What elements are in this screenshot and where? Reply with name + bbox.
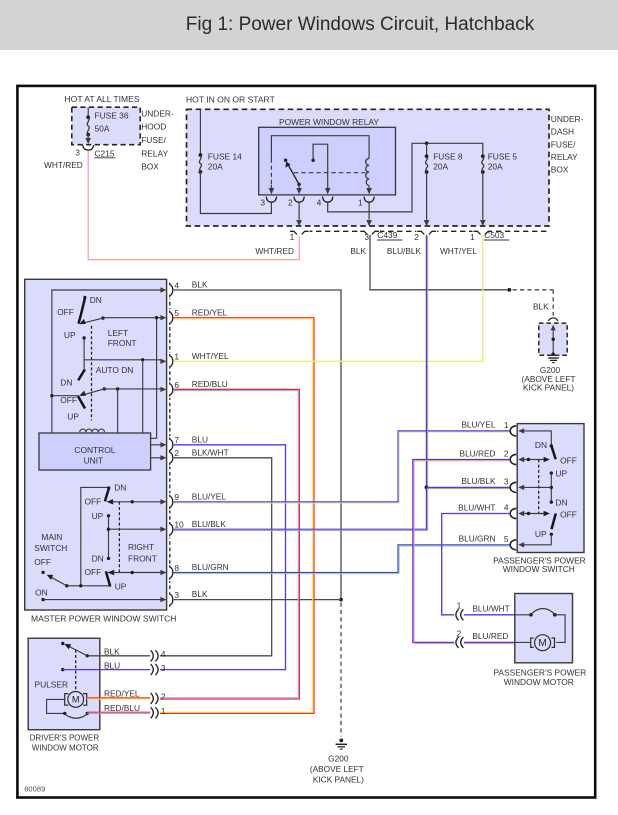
svg-text:8: 8 [174, 563, 179, 573]
svg-text:BLU/YEL: BLU/YEL [461, 420, 496, 430]
under-dash fuse/relay box (dashed) [187, 109, 550, 226]
svg-text:BLK/WHT: BLK/WHT [192, 447, 229, 457]
wire BLU/BLK from C439 pin 2 [425, 235, 427, 487]
junction rail at down switch [50, 394, 53, 397]
right front upper blade [107, 486, 110, 489]
passenger motor thermal breaker arc [529, 613, 533, 617]
passenger pin 4 lead with wiper arrow [524, 513, 546, 515]
svg-text:KICK PANEL): KICK PANEL) [523, 382, 574, 392]
driver motor M2 [68, 692, 84, 708]
svg-text:POWER WINDOW RELAY: POWER WINDOW RELAY [279, 117, 379, 127]
feed rail down to control unit [151, 318, 157, 439]
fuse F8 20A [425, 154, 429, 158]
passenger DN contact upper [550, 444, 553, 447]
connector C215 [83, 145, 94, 150]
svg-text:M: M [538, 638, 546, 649]
contact dot pin 8 row [131, 571, 134, 574]
svg-text:4: 4 [161, 649, 166, 659]
svg-text:1: 1 [358, 198, 363, 208]
svg-text:OFF: OFF [85, 497, 102, 507]
svg-text:MAIN: MAIN [41, 532, 62, 542]
svg-text:2: 2 [414, 232, 419, 242]
svg-text:BLU/GRN: BLU/GRN [192, 562, 229, 572]
passenger power window switch box [517, 424, 584, 553]
wire BLU master pin 7 to driver motor [160, 445, 286, 670]
passenger pin edge arrows [518, 428, 524, 433]
svg-text:DN: DN [60, 378, 72, 388]
ground distribution box G200 right (dashed) [539, 323, 567, 355]
fuse F14 20A [199, 153, 203, 157]
relay coil feed loop wire [271, 136, 369, 159]
down switch blade [78, 396, 85, 408]
auto dn contact and lead [82, 336, 85, 339]
passenger pin 3 lead [524, 486, 551, 488]
svg-text:OFF: OFF [560, 455, 577, 465]
relay pin 3 link (dashed) [270, 159, 272, 185]
svg-text:20A: 20A [208, 162, 223, 172]
svg-text:BLK: BLK [192, 280, 208, 290]
svg-text:MASTER POWER WINDOW SWITCH: MASTER POWER WINDOW SWITCH [31, 614, 176, 624]
svg-text:FUSE 14: FUSE 14 [208, 152, 242, 162]
svg-text:BLK: BLK [533, 301, 549, 311]
svg-text:BOX: BOX [551, 165, 569, 175]
svg-text:WHT/YEL: WHT/YEL [440, 246, 477, 256]
passenger UP contact [550, 471, 553, 474]
driver motor connector arcs and pins [151, 650, 154, 661]
svg-text:BLU: BLU [104, 660, 120, 670]
right front mech link dashed [118, 502, 120, 573]
svg-text:OFF: OFF [34, 557, 51, 567]
G200 right internal lead with up arrow [552, 328, 554, 354]
junction pin6 row to control unit [116, 387, 119, 390]
svg-text:(ABOVE LEFT: (ABOVE LEFT [310, 764, 364, 774]
svg-text:C215: C215 [95, 148, 115, 158]
svg-text:BLK: BLK [350, 246, 366, 256]
svg-text:FUSE/: FUSE/ [551, 139, 576, 149]
connector arcs motor pin 2 [461, 637, 464, 648]
under-hood fuse/relay box (dashed) [72, 107, 140, 145]
svg-text:RED/BLU: RED/BLU [192, 379, 228, 389]
wire BLK master pin 3 [174, 599, 341, 601]
master pin edge arrows [160, 287, 166, 292]
junction pin 10 row [107, 528, 110, 531]
svg-text:BLU/GRN: BLU/GRN [459, 534, 496, 544]
wire RED/BLU driver motor internal [87, 711, 150, 713]
junction fuse 8 tap [425, 142, 429, 146]
svg-text:9: 9 [174, 492, 179, 502]
svg-text:Fig 1: Power Windows Circuit,: Fig 1: Power Windows Circuit, Hatchback [186, 14, 535, 35]
wire RED/YEL master pin 5 to driver motor [160, 318, 314, 714]
driver motor commutator arc [63, 712, 66, 715]
svg-text:50A: 50A [95, 124, 110, 134]
passenger pin 1 lead to DN contact [524, 431, 551, 445]
svg-text:4: 4 [504, 503, 509, 513]
main switch OFF contact [41, 571, 44, 574]
svg-text:ON: ON [35, 587, 48, 597]
fuse F5 20A [481, 154, 485, 158]
svg-text:UNDER-: UNDER- [551, 114, 584, 124]
svg-text:FRONT: FRONT [108, 338, 137, 348]
svg-text:UP: UP [64, 330, 76, 340]
right front centre lead [108, 516, 110, 559]
relay coil [366, 159, 369, 186]
junction pin1 row [141, 358, 144, 361]
relay coil to pin 1 arrow [368, 186, 370, 190]
down switch wiper to pin 6 [103, 387, 106, 390]
wire master pin 10 internal [109, 528, 161, 530]
bottom rail to blades [67, 585, 110, 587]
svg-text:3: 3 [161, 663, 166, 673]
down switch pivot lead [52, 395, 79, 397]
svg-text:SWITCH: SWITCH [34, 543, 67, 553]
junction passenger pin 3 row [550, 486, 553, 489]
right front UP contact [107, 514, 110, 517]
svg-text:OFF: OFF [85, 567, 102, 577]
wire fuse 8 to C439 pin 2 [426, 172, 428, 220]
svg-text:HOT AT ALL TIMES: HOT AT ALL TIMES [65, 94, 140, 104]
wire fuse F14 to relay pin 3 [200, 172, 271, 214]
svg-text:HOT IN ON OR START: HOT IN ON OR START [186, 95, 276, 105]
svg-text:1: 1 [470, 232, 475, 242]
svg-text:DN: DN [535, 440, 547, 450]
svg-text:WINDOW MOTOR: WINDOW MOTOR [32, 744, 99, 753]
svg-text:WHT/RED: WHT/RED [44, 160, 83, 170]
svg-text:DN: DN [90, 295, 102, 305]
passenger lower blade [552, 513, 556, 529]
wire BLK master pin 4 to ground [174, 290, 341, 600]
svg-text:G200: G200 [328, 754, 349, 764]
svg-text:CONTROL: CONTROL [74, 445, 115, 455]
svg-text:3: 3 [504, 476, 509, 486]
svg-text:1: 1 [290, 232, 295, 242]
wire BLK dashed to G200 right [513, 289, 554, 291]
pulser contact [61, 642, 64, 645]
passenger DN contact lower [550, 500, 553, 503]
passenger motor breaker lead [515, 614, 531, 616]
svg-text:FRONT: FRONT [128, 553, 157, 563]
svg-text:1: 1 [174, 352, 179, 362]
svg-text:2: 2 [504, 449, 509, 459]
wire master pin 9 internal with wiper arrow [106, 499, 113, 504]
pulser blade with arrow [67, 645, 88, 656]
svg-text:7: 7 [174, 435, 179, 445]
svg-text:BOX: BOX [141, 162, 159, 172]
junction BLU/BLK [425, 486, 429, 490]
right front feed rail [81, 487, 109, 585]
svg-text:WINDOW SWITCH: WINDOW SWITCH [503, 564, 575, 574]
wire BLU driver motor internal [63, 669, 150, 671]
svg-text:BLU/BLK: BLU/BLK [387, 246, 422, 256]
svg-text:BLU/WHT: BLU/WHT [458, 502, 495, 512]
svg-text:C439: C439 [377, 230, 397, 240]
wire BLU/BLK master pin 10 to junction [174, 487, 427, 529]
svg-text:UNIT: UNIT [84, 456, 104, 466]
passenger lower blade contact [550, 533, 553, 536]
wire relay pin 4 to fuses 8 and 5 [328, 143, 483, 212]
control unit box [39, 433, 151, 470]
connector bracket above G200 box [548, 318, 558, 321]
svg-text:PASSENGER'S POWER: PASSENGER'S POWER [493, 667, 586, 677]
wire master pin 4 internal [52, 290, 161, 433]
left front switch blade [83, 296, 86, 299]
svg-text:RIGHT: RIGHT [128, 542, 154, 552]
relay pin cups [266, 197, 276, 203]
svg-text:FUSE/: FUSE/ [141, 135, 166, 145]
svg-text:UNDER-: UNDER- [141, 108, 174, 118]
fuse F36 lead [87, 107, 89, 117]
ground symbol G200 right [548, 357, 559, 359]
svg-text:KICK PANEL): KICK PANEL) [313, 774, 364, 784]
svg-text:2: 2 [161, 692, 166, 702]
wire BLU/RED connector to motor box [464, 641, 515, 643]
svg-text:3: 3 [364, 232, 369, 242]
auto-down link dashed [91, 326, 93, 421]
svg-text:OFF: OFF [60, 395, 77, 405]
passenger centre lead [550, 473, 552, 502]
svg-text:1: 1 [161, 706, 166, 716]
svg-text:4: 4 [174, 280, 179, 290]
svg-text:5: 5 [174, 308, 179, 318]
wire BLK/WHT master pin 2 to driver motor [160, 458, 272, 656]
passenger power window motor box [515, 594, 573, 663]
svg-text:2: 2 [174, 448, 179, 458]
passenger pin 2 lead with wiper arrow [524, 459, 546, 461]
svg-text:AUTO DN: AUTO DN [96, 365, 134, 375]
auto dn blade [78, 369, 85, 380]
control unit solenoid coil [80, 429, 105, 432]
svg-text:5: 5 [504, 534, 509, 544]
driver motor lower loop [47, 699, 65, 713]
wire BLU/BLK junction to passenger pin 3 [426, 486, 509, 488]
svg-text:3: 3 [75, 147, 80, 157]
right front lower blade [106, 571, 110, 584]
master connector pin bulges [170, 283, 173, 297]
svg-text:UP: UP [555, 468, 567, 478]
svg-text:LEFT: LEFT [108, 328, 128, 338]
svg-text:BLU/BLK: BLU/BLK [192, 519, 227, 529]
pulser lower contact on BLK row [86, 654, 89, 657]
svg-text:2: 2 [457, 628, 462, 638]
passenger motor breaker to motor lead [555, 615, 565, 643]
master connector dashed line [169, 283, 171, 607]
vertical 142.7 to control unit [142, 360, 144, 433]
wire BLU/RED passenger pin 2 to motor [413, 460, 510, 643]
wire master pin 1 internal [84, 359, 161, 361]
passenger motor pin 2 lead [515, 641, 531, 643]
wire master pin 8 internal with wiper arrow [107, 570, 114, 575]
svg-text:BLK: BLK [104, 647, 120, 657]
svg-text:RELAY: RELAY [551, 152, 578, 162]
svg-text:BLU/RED: BLU/RED [460, 448, 496, 458]
svg-text:PULSER: PULSER [35, 679, 69, 689]
svg-text:20A: 20A [433, 162, 448, 172]
passenger upper blade [552, 446, 556, 459]
svg-text:BLU: BLU [192, 434, 208, 444]
relay mechanical link (dashed) [294, 172, 366, 174]
wire fuse 5 to C503 pin 1 [482, 172, 484, 220]
title bar [0, 0, 618, 50]
right front DN contact [107, 557, 110, 560]
main switch ON contact and pin 3 wire [41, 598, 44, 601]
svg-text:RELAY: RELAY [141, 148, 168, 158]
svg-text:UP: UP [92, 511, 104, 521]
svg-text:WINDOW MOTOR: WINDOW MOTOR [504, 677, 574, 687]
wire WHT/RED from C215 to relay pin 2 [88, 151, 299, 260]
connector C503 notch pin 1 [474, 231, 493, 234]
passenger pin 5 lead [524, 534, 551, 545]
svg-text:2: 2 [288, 198, 293, 208]
svg-text:3: 3 [174, 590, 179, 600]
svg-text:OFF: OFF [57, 307, 74, 317]
wire BLU/WHT connector to motor box [464, 614, 515, 616]
wire RED/BLU master pin 6 to driver motor [160, 389, 300, 699]
svg-text:WHT/RED: WHT/RED [255, 246, 294, 256]
svg-text:80089: 80089 [24, 784, 45, 793]
passenger motor M1 [535, 635, 551, 651]
relay pin 3 internal arrow [270, 185, 272, 190]
fuse F14 lead [199, 109, 201, 155]
relay blade to pin 2 arrow [297, 183, 300, 186]
svg-text:DN: DN [92, 553, 104, 563]
junction BLK to ground lead [508, 288, 512, 292]
wire BLU/WHT passenger pin 4 to motor [442, 514, 510, 615]
svg-text:BLU/BLK: BLU/BLK [461, 476, 496, 486]
svg-text:DASH: DASH [551, 127, 574, 137]
svg-text:1: 1 [457, 601, 462, 611]
contact dot pin 9 row [131, 500, 134, 503]
wire BLK driver motor internal [87, 655, 150, 657]
connector C439 notch pin 2 [417, 231, 436, 234]
svg-text:M: M [72, 695, 80, 705]
passenger connector bulges [510, 426, 516, 436]
svg-text:BLU/RED: BLU/RED [472, 631, 508, 641]
connector strip dashed line [289, 230, 549, 232]
svg-text:UP: UP [535, 529, 547, 539]
wire BLK dashed to G200 bottom [340, 603, 342, 737]
svg-text:20A: 20A [488, 162, 503, 172]
svg-text:BLU/WHT: BLU/WHT [472, 604, 509, 614]
ground G200 bottom [339, 739, 343, 743]
svg-text:BLU/YEL: BLU/YEL [192, 491, 227, 501]
svg-text:FUSE 8: FUSE 8 [433, 152, 463, 162]
svg-text:6: 6 [174, 380, 179, 390]
pulser mech link dashed [75, 650, 77, 690]
junction pin5 feed rail [155, 316, 158, 319]
relay switch pivot contact [284, 159, 287, 162]
svg-text:DN: DN [555, 498, 567, 508]
svg-text:BLK: BLK [192, 589, 208, 599]
svg-text:OFF: OFF [560, 509, 577, 519]
wire BLK C439 pin 3 down and right [370, 235, 509, 290]
svg-text:FUSE 5: FUSE 5 [488, 152, 518, 162]
junction BLK pins 4 and 3 [339, 598, 343, 602]
wire relay pin 2 to connector (WHT/RED feed) [298, 202, 300, 219]
driver power window motor box [28, 638, 100, 730]
wire control unit to pin 7 [151, 444, 161, 446]
svg-text:DN: DN [114, 482, 126, 492]
svg-text:3: 3 [260, 198, 265, 208]
svg-text:UP: UP [115, 581, 127, 591]
pulser BLU contact [61, 668, 64, 671]
svg-text:C503: C503 [484, 230, 504, 240]
fuse F36 50A [86, 115, 90, 119]
svg-text:RED/YEL: RED/YEL [192, 307, 228, 317]
connector C439 notch pin 3 [360, 231, 379, 234]
passenger mech link dashed [538, 460, 540, 514]
wire relay pin 1 to C439 [368, 202, 370, 219]
svg-text:RED/BLU: RED/BLU [104, 703, 140, 713]
wire BLU/YEL master pin 9 to passenger switch [174, 431, 510, 502]
wire control unit to pin 2 [151, 457, 161, 459]
connector arcs motor pin 1 [461, 609, 464, 620]
fuse F36 output arrow [87, 135, 89, 140]
svg-text:DRIVER'S POWER: DRIVER'S POWER [30, 734, 100, 743]
svg-text:UP: UP [67, 412, 79, 422]
svg-text:10: 10 [174, 520, 184, 530]
relay switch blade [288, 164, 299, 184]
svg-text:1: 1 [504, 420, 509, 430]
wire BLU/GRN master pin 8 to passenger pin 5 [174, 545, 510, 573]
wire RED/YEL driver motor internal [87, 697, 150, 699]
left front switch wiper to pin 5 [101, 316, 104, 319]
svg-text:FUSE 36: FUSE 36 [95, 111, 129, 121]
relay fixed contact to pin 4 [311, 159, 314, 162]
master power window switch box [25, 279, 167, 610]
main switch blade with arrow [49, 576, 67, 586]
connector notch WHT/RED [290, 231, 309, 234]
svg-text:4: 4 [317, 198, 322, 208]
svg-text:WHT/YEL: WHT/YEL [192, 351, 229, 361]
wire WHT/YEL master pin 1 from C503 [174, 235, 483, 361]
svg-text:HOOD: HOOD [141, 122, 166, 132]
svg-text:RED/YEL: RED/YEL [104, 688, 140, 698]
